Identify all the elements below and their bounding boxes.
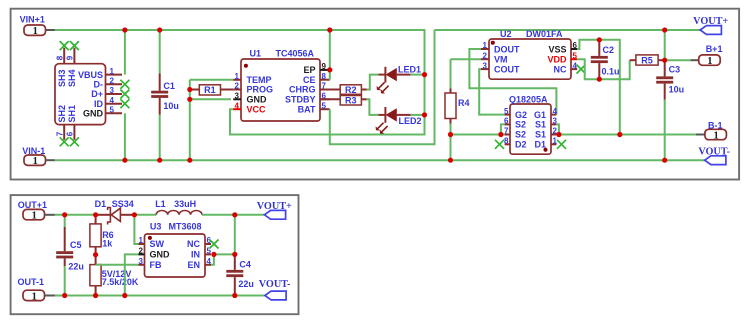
- junction ground at GND vertical: [122, 293, 127, 298]
- capacitor C2: [598, 40, 600, 56]
- svg-text:SH4: SH4: [67, 69, 77, 87]
- wire TEMP/GND vertical: [189, 80, 191, 160]
- svg-text:3: 3: [483, 61, 488, 70]
- wire S2 line to R4: [451, 134, 505, 136]
- svg-text:3: 3: [110, 86, 115, 95]
- svg-text:10u: 10u: [163, 101, 179, 111]
- capacitor C4: [234, 254, 236, 270]
- wire VM to R4: [451, 58, 482, 60]
- sheet border bottom section: [11, 195, 299, 314]
- connector B-1: [705, 129, 727, 139]
- wire B- line: [559, 134, 696, 136]
- LED LED2: [379, 114, 386, 116]
- connector VIN+1: [24, 25, 46, 35]
- svg-text:DOUT: DOUT: [494, 44, 520, 54]
- junction GND rail at R4: [448, 158, 453, 163]
- svg-text:U1: U1: [250, 48, 262, 58]
- svg-text:5: 5: [322, 101, 327, 110]
- svg-text:VM: VM: [494, 55, 508, 65]
- svg-text:9: 9: [66, 55, 75, 60]
- svg-text:VDD: VDD: [547, 55, 567, 65]
- svg-text:TC4056A: TC4056A: [276, 48, 315, 58]
- junction R7 bottom: [93, 293, 98, 298]
- wire R2 to LED1: [367, 75, 379, 90]
- svg-text:U3: U3: [150, 221, 162, 231]
- svg-text:IN: IN: [191, 250, 200, 260]
- wire VSS to B- line: [577, 40, 620, 135]
- net flag VOUT+ bottom: [264, 210, 285, 219]
- wire DOUT to G1: [469, 49, 556, 115]
- no-connect X on D2: [495, 140, 504, 149]
- svg-text:1: 1: [110, 67, 115, 76]
- svg-text:EP: EP: [303, 65, 315, 75]
- svg-text:C3: C3: [669, 65, 681, 75]
- junction at C5 top: [62, 212, 67, 217]
- wire R3 to LED2: [367, 99, 379, 115]
- junction VIN+ rail at EP: [327, 27, 332, 32]
- wire VDD to R5: [577, 59, 630, 79]
- svg-text:S2: S2: [515, 120, 526, 130]
- svg-text:1: 1: [33, 26, 38, 37]
- svg-text:NC: NC: [187, 239, 200, 249]
- svg-text:VOUT-: VOUT-: [259, 279, 291, 290]
- svg-text:FB: FB: [150, 260, 162, 270]
- svg-text:C1: C1: [163, 81, 175, 91]
- junction ground at C5: [62, 293, 67, 298]
- IC U1 TC4056A: [241, 59, 320, 121]
- junction LED2 anode: [422, 112, 427, 117]
- svg-text:VOUT+: VOUT+: [693, 16, 728, 27]
- resistor R5: [630, 59, 636, 61]
- wire VBUS to rail: [124, 30, 126, 75]
- svg-text:L1: L1: [155, 199, 166, 209]
- svg-text:4: 4: [235, 101, 240, 110]
- svg-text:PROG: PROG: [247, 85, 274, 95]
- svg-text:10u: 10u: [669, 85, 685, 95]
- junction C2 top: [597, 37, 602, 42]
- svg-text:1: 1: [553, 137, 558, 146]
- svg-text:D-: D-: [94, 80, 104, 90]
- wire GND pin3: [190, 98, 231, 100]
- svg-text:R5: R5: [641, 56, 653, 66]
- resistor R7 5V/12V 7.5k/20K: [95, 255, 97, 265]
- junction D1 cathode / SW node: [132, 212, 137, 217]
- svg-text:33uH: 33uH: [174, 199, 196, 209]
- junction at D1 anode: [93, 212, 98, 217]
- svg-text:D2: D2: [515, 140, 527, 150]
- svg-text:Q18205A: Q18205A: [509, 94, 548, 104]
- svg-text:S1: S1: [535, 120, 546, 130]
- svg-text:VBUS: VBUS: [78, 70, 103, 80]
- no-connect X on USB D+: [120, 90, 129, 99]
- svg-text:VSS: VSS: [548, 44, 566, 54]
- svg-text:GND: GND: [247, 95, 268, 105]
- svg-text:OUT-1: OUT-1: [18, 277, 45, 287]
- junction C2 bottom: [597, 77, 602, 82]
- svg-text:7: 7: [504, 127, 509, 136]
- junction GND rail at USB GND: [122, 158, 127, 163]
- no-connect X on U2 NC: [577, 65, 586, 74]
- resistor R3: [320, 98, 340, 100]
- wire GND pin to ground: [125, 254, 139, 295]
- svg-text:1: 1: [707, 56, 712, 67]
- svg-text:2: 2: [483, 51, 488, 60]
- svg-text:8: 8: [322, 72, 327, 81]
- svg-text:22u: 22u: [68, 262, 84, 272]
- svg-text:6: 6: [504, 117, 509, 126]
- svg-text:B-1: B-1: [708, 121, 723, 131]
- svg-text:7: 7: [55, 131, 64, 136]
- svg-text:1: 1: [32, 291, 37, 302]
- svg-text:G1: G1: [534, 110, 546, 120]
- junction B+ node: [662, 58, 667, 63]
- junction S1/B- line: [556, 132, 561, 137]
- svg-text:COUT: COUT: [494, 65, 520, 75]
- junction LED1 anode: [422, 72, 427, 77]
- svg-text:CE: CE: [303, 75, 316, 85]
- svg-text:CHRG: CHRG: [289, 85, 316, 95]
- svg-text:C5: C5: [70, 240, 82, 250]
- IC U2 DW01FA: [489, 39, 571, 79]
- resistor R2: [320, 89, 340, 91]
- wire B+ node vertical: [664, 30, 666, 60]
- svg-text:1: 1: [235, 72, 240, 81]
- svg-text:1k: 1k: [102, 239, 113, 249]
- wire EN/IN bracket: [211, 254, 214, 264]
- svg-text:3: 3: [235, 92, 240, 101]
- svg-text:1: 1: [139, 236, 144, 245]
- wire IN to VOUT rail: [214, 253, 235, 255]
- no-connect X on U3 NC: [210, 240, 219, 249]
- svg-text:BAT: BAT: [298, 104, 316, 114]
- svg-text:3: 3: [139, 257, 144, 266]
- capacitor C1: [159, 30, 161, 74]
- svg-text:2: 2: [235, 82, 240, 91]
- svg-text:LED1: LED1: [398, 65, 421, 75]
- svg-text:0.1u: 0.1u: [602, 67, 620, 77]
- svg-text:C2: C2: [603, 45, 615, 55]
- svg-text:ID: ID: [94, 99, 104, 109]
- svg-text:EN: EN: [187, 260, 200, 270]
- capacitor C3: [664, 60, 666, 76]
- junction R4 at S2 line: [448, 132, 453, 137]
- svg-text:4: 4: [110, 96, 115, 105]
- junction B+ rail at C3/R5: [662, 27, 667, 32]
- svg-text:NC: NC: [554, 65, 567, 75]
- svg-text:1: 1: [32, 211, 37, 222]
- wire GND bottom rail: [55, 159, 705, 161]
- svg-text:R2: R2: [345, 85, 357, 95]
- wire SW to switch node: [134, 215, 138, 244]
- junction IN pin: [211, 252, 216, 257]
- wire COUT to G2: [479, 69, 504, 115]
- svg-text:VOUT+: VOUT+: [257, 201, 292, 212]
- svg-text:GND: GND: [150, 250, 171, 260]
- LED LED1: [379, 74, 386, 76]
- resistor R1: [190, 89, 200, 91]
- svg-text:LED2: LED2: [399, 116, 422, 126]
- svg-text:1: 1: [713, 131, 718, 142]
- junction GND rail at C3: [662, 158, 667, 163]
- svg-text:4: 4: [207, 257, 212, 266]
- IC U4 Q18205A dual MOSFET: [510, 104, 551, 154]
- svg-text:SH3: SH3: [57, 69, 67, 87]
- junction S2 line: [498, 132, 503, 137]
- junction at IN/EN drop: [232, 212, 237, 217]
- svg-text:6: 6: [66, 131, 75, 136]
- svg-text:U2: U2: [500, 29, 512, 39]
- svg-text:STDBY: STDBY: [285, 95, 316, 105]
- svg-text:5: 5: [504, 107, 509, 116]
- svg-text:R3: R3: [345, 96, 357, 106]
- svg-text:D+: D+: [91, 89, 103, 99]
- svg-text:S1: S1: [535, 130, 546, 140]
- svg-text:DW01FA: DW01FA: [526, 29, 563, 39]
- svg-text:SH2: SH2: [57, 105, 67, 123]
- svg-text:B+1: B+1: [706, 44, 723, 54]
- svg-text:VIN-1: VIN-1: [22, 146, 45, 156]
- svg-text:D1: D1: [534, 140, 546, 150]
- svg-text:R4: R4: [458, 98, 470, 108]
- wire B+ top rail right: [435, 29, 701, 31]
- wire B+ node to B+1: [665, 59, 691, 61]
- junction C4 top: [232, 252, 237, 257]
- wire VIN+ top rail: [55, 30, 425, 135]
- svg-text:C4: C4: [239, 259, 251, 269]
- svg-text:G2: G2: [515, 110, 527, 120]
- sheet border top section: [11, 9, 740, 180]
- net flag VOUT- bottom: [265, 291, 286, 300]
- svg-text:9: 9: [322, 62, 327, 71]
- svg-text:5: 5: [573, 51, 578, 60]
- wire EP/CE to VIN+: [329, 30, 331, 80]
- svg-text:22u: 22u: [238, 279, 254, 289]
- svg-text:VOUT-: VOUT-: [698, 146, 730, 157]
- wire OUT- ground rail: [55, 295, 265, 297]
- resistor R4: [450, 59, 452, 88]
- IC U3 MT3608: [145, 234, 206, 277]
- svg-text:6: 6: [573, 41, 578, 50]
- junction R1 left: [187, 87, 192, 92]
- connector OUT+1: [23, 209, 45, 219]
- svg-text:OUT+1: OUT+1: [18, 200, 47, 210]
- net flag VOUT+ top: [700, 26, 721, 35]
- capacitor C5: [64, 215, 66, 227]
- svg-text:2: 2: [110, 77, 115, 86]
- wire S1 pins bracket: [556, 124, 559, 134]
- svg-text:R1: R1: [204, 85, 216, 95]
- svg-text:SW: SW: [150, 239, 165, 249]
- svg-text:S2: S2: [515, 130, 526, 140]
- svg-text:SH1: SH1: [67, 105, 77, 123]
- junction VIN+ rail at C1: [157, 27, 162, 32]
- no-connect X on USB ID: [120, 99, 129, 108]
- wire S2 pins bracket: [501, 124, 505, 134]
- junction ground at C4: [232, 293, 237, 298]
- connector OUT-1: [23, 290, 45, 300]
- junction GND rail at R1/TEMP: [187, 158, 192, 163]
- wire FB line: [96, 264, 139, 266]
- svg-text:4: 4: [553, 107, 558, 116]
- svg-text:TEMP: TEMP: [247, 75, 272, 85]
- svg-text:8: 8: [504, 137, 509, 146]
- svg-text:8: 8: [55, 55, 64, 60]
- svg-text:7.5k/20K: 7.5k/20K: [102, 277, 139, 287]
- no-connect X on D1: [557, 140, 566, 149]
- svg-text:5: 5: [110, 106, 115, 115]
- wire USB GND to rail: [124, 113, 126, 160]
- wire L1 to VOUT+: [202, 214, 264, 216]
- wire OUT+ rail: [55, 214, 96, 216]
- svg-text:D1: D1: [95, 199, 107, 209]
- connector VIN-1: [24, 155, 46, 165]
- no-connect X on USB D-: [120, 80, 129, 89]
- net flag VOUT- top: [705, 156, 726, 165]
- USB connector J1: [55, 64, 106, 125]
- junction EP pin: [327, 67, 332, 72]
- svg-text:GND: GND: [83, 109, 104, 119]
- svg-text:MT3608: MT3608: [169, 221, 202, 231]
- junction VIN+ rail at VBUS: [122, 27, 127, 32]
- connector B+1: [699, 55, 721, 65]
- junction R6/R7: [93, 252, 98, 257]
- junction GND pin wire: [187, 97, 192, 102]
- junction B- at VSS vertical: [617, 132, 622, 137]
- resistor R6: [95, 215, 97, 224]
- svg-text:SS34: SS34: [112, 199, 134, 209]
- svg-text:VIN+1: VIN+1: [20, 15, 45, 25]
- wire BAT to B+ rail: [330, 30, 435, 144]
- svg-text:2: 2: [139, 247, 144, 256]
- svg-text:1: 1: [33, 156, 38, 167]
- svg-text:1: 1: [483, 41, 488, 50]
- junction GND rail at C1: [157, 158, 162, 163]
- svg-text:VCC: VCC: [247, 104, 267, 114]
